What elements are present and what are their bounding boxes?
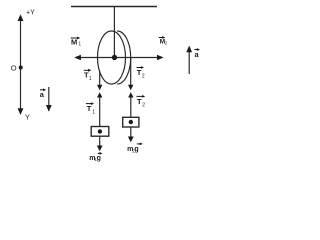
svg-text:T: T	[137, 97, 142, 106]
svg-text:O: O	[11, 63, 17, 72]
svg-text:1: 1	[92, 110, 95, 116]
svg-text:': '	[142, 67, 143, 73]
svg-text:2: 2	[142, 74, 145, 80]
svg-text:': '	[89, 70, 90, 76]
svg-text:M: M	[71, 38, 77, 47]
svg-text:T: T	[87, 104, 92, 113]
svg-text:g: g	[134, 146, 138, 153]
svg-text:2: 2	[142, 103, 145, 109]
svg-text:1: 1	[78, 41, 81, 47]
svg-text:1: 1	[89, 76, 92, 82]
svg-text:+Y: +Y	[26, 10, 35, 17]
svg-text:g: g	[97, 155, 101, 162]
svg-text:Y: Y	[25, 112, 30, 121]
